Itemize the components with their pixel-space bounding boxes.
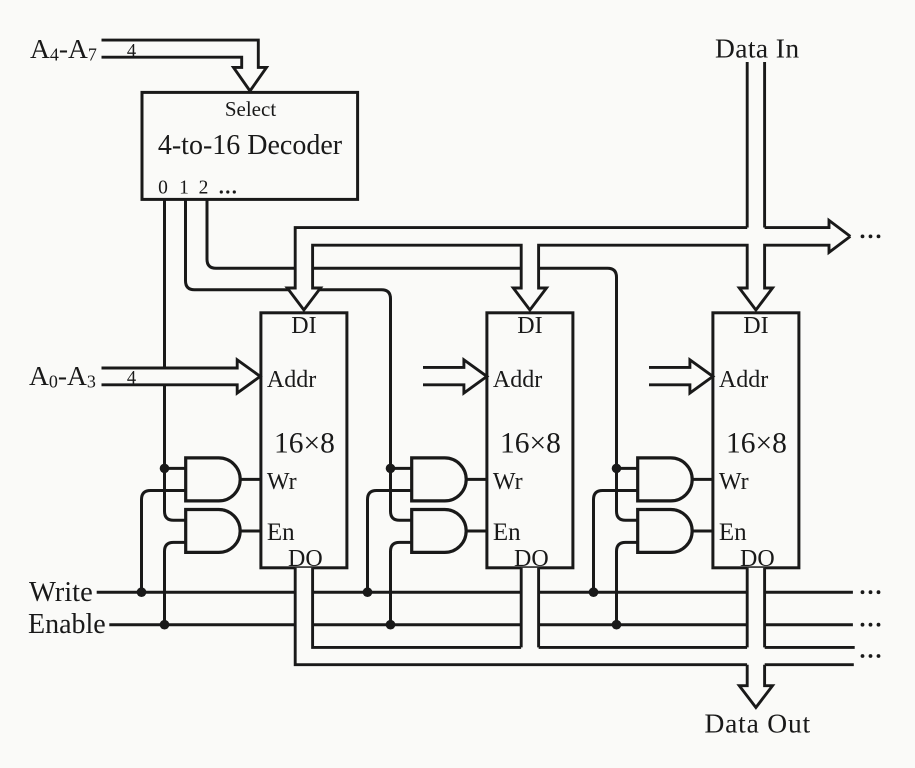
memory chip M2 (16x8 RAM, bank 2) — [713, 313, 799, 568]
junction Write tap bank 0 — [137, 587, 147, 597]
wire select tap to Wr AND gate input (bank 2) — [617, 467, 638, 470]
junction Enable tap bank 0 — [160, 620, 170, 630]
svg-text:1: 1 — [179, 178, 189, 199]
wire decoder output 0 (net Sel0) to bank 0 AND gates — [165, 199, 186, 520]
wire Wr gate output to chip pin Wr (bank 1) — [466, 478, 489, 481]
junction Enable tap bank 2 — [612, 620, 622, 630]
wire decoder output 1 (net Sel1) to bank 1 AND gates — [186, 199, 412, 520]
svg-text:A0-A3: A0-A3 — [29, 360, 96, 392]
label ellipsis Enable line continuation — [861, 623, 881, 627]
svg-text:En: En — [493, 519, 521, 546]
junction select tap bank 2 — [612, 464, 622, 474]
wire Wr gate output to chip pin Wr (bank 2) — [692, 478, 715, 481]
pin label 0 (decoder output 0) — [158, 178, 168, 199]
AND gate U5 (Write enable, bank 2) — [638, 458, 693, 501]
pin label Wr (bank 0) — [267, 469, 297, 495]
label bus width 4 (A0-A3) — [127, 369, 136, 389]
svg-text:0: 0 — [158, 178, 168, 199]
pin label DI (bank 1) — [517, 313, 542, 339]
label Data Out — [705, 708, 811, 739]
bus Data In vertical — [747, 62, 764, 228]
svg-text:DI: DI — [743, 313, 768, 339]
svg-text:DO: DO — [288, 546, 323, 572]
svg-text:4: 4 — [127, 42, 136, 62]
AND gate U2 (chip Enable, bank 0) — [186, 510, 240, 553]
bus Addr stub arrow into chip M1 — [423, 360, 487, 393]
pin label Wr (bank 2) — [719, 469, 749, 495]
wire decoder output 2 (net Sel2) to bank 2 AND gates — [207, 199, 638, 520]
svg-text:4-to-16 Decoder: 4-to-16 Decoder — [158, 130, 343, 161]
pin label DO (bank 0) — [288, 546, 323, 572]
pin label DI (bank 2) — [743, 313, 768, 339]
svg-text:Data In: Data In — [715, 33, 800, 64]
bus A4-A7 into decoder Select input — [102, 40, 267, 91]
label ellipsis decoder outputs — [220, 190, 236, 193]
bus DO output of chip M2 crossing Data Out bus into Data Out arrow — [739, 568, 772, 708]
svg-text:DI: DI — [291, 313, 316, 339]
pin label Wr (bank 1) — [493, 469, 523, 495]
wire Write tap riser to Wr AND gate input (bank 2) — [594, 491, 638, 593]
label A0-A3 — [29, 360, 96, 392]
svg-text:En: En — [267, 519, 295, 546]
bus DO output of chip M0 turning into Data Out bus — [295, 568, 855, 666]
svg-text:A4-A7: A4-A7 — [30, 33, 97, 65]
pin label En (bank 2) — [719, 519, 747, 546]
wire Write line (net Write) — [97, 591, 853, 594]
pin label Addr (bank 0) — [267, 367, 316, 393]
label ellipsis Data Out bus continuation — [861, 654, 881, 658]
wire Enable drop from En AND gate input (bank 2) — [617, 542, 638, 624]
junction Enable tap bank 1 — [386, 620, 396, 630]
label Write — [29, 577, 93, 608]
label bus width 4 (A4-A7) — [127, 42, 136, 62]
wire Enable line (net Enable) — [109, 623, 853, 626]
wire Enable drop from En AND gate input (bank 0) — [165, 542, 186, 624]
svg-text:Write: Write — [29, 577, 93, 608]
junction Write tap bank 1 — [363, 587, 373, 597]
AND gate U3 (Write enable, bank 1) — [412, 458, 467, 501]
pin label En (bank 1) — [493, 519, 521, 546]
svg-text:Enable: Enable — [28, 609, 106, 640]
svg-text:DO: DO — [740, 546, 775, 572]
svg-text:DO: DO — [514, 546, 549, 572]
pin label 2 (decoder output 2) — [199, 178, 209, 199]
AND gate U1 (Write enable, bank 0) — [186, 458, 240, 501]
pin label DO (bank 1) — [514, 546, 549, 572]
svg-text:Addr: Addr — [267, 367, 316, 393]
svg-text:16×8: 16×8 — [500, 427, 561, 459]
value label 16x8 (bank 1) — [500, 427, 561, 459]
bus Addr stub arrow into chip M2 — [649, 360, 713, 393]
svg-text:Wr: Wr — [267, 469, 297, 495]
wire Wr gate output to chip pin Wr (bank 0) — [240, 478, 263, 481]
wire Write tap riser to Wr AND gate input (bank 0) — [142, 491, 186, 593]
label Data In — [715, 33, 800, 64]
svg-text:16×8: 16×8 — [726, 427, 787, 459]
pin label DI (bank 0) — [291, 313, 316, 339]
svg-text:En: En — [719, 519, 747, 546]
label Select (decoder input pin) — [225, 97, 276, 121]
svg-text:Data Out: Data Out — [705, 708, 811, 739]
label 4-to-16 Decoder — [158, 130, 343, 161]
svg-text:DI: DI — [517, 313, 542, 339]
decoder U0 (4-to-16 decoder box) — [142, 92, 358, 199]
label ellipsis Write line continuation — [861, 590, 881, 594]
label ellipsis data-in branch continuation — [861, 235, 881, 239]
svg-text:Select: Select — [225, 97, 276, 121]
wire Write tap riser to Wr AND gate input (bank 1) — [368, 491, 412, 593]
svg-text:Wr: Wr — [719, 469, 749, 495]
svg-text:16×8: 16×8 — [274, 427, 335, 459]
AND gate U4 (chip Enable, bank 1) — [412, 510, 466, 553]
svg-text:2: 2 — [199, 178, 209, 199]
wire select tap to Wr AND gate input (bank 1) — [391, 467, 412, 470]
wire En gate output to chip pin En (bank 2) — [692, 530, 715, 533]
value label 16x8 (bank 2) — [726, 427, 787, 459]
label A4-A7 — [30, 33, 97, 65]
AND gate U6 (chip Enable, bank 2) — [638, 510, 692, 553]
pin label En (bank 0) — [267, 519, 295, 546]
wire select tap to Wr AND gate input (bank 0) — [165, 467, 186, 470]
junction select tap bank 0 — [160, 464, 170, 474]
wire En gate output to chip pin En (bank 1) — [466, 530, 489, 533]
wire Enable drop from En AND gate input (bank 1) — [391, 542, 412, 624]
junction Write tap bank 2 — [589, 587, 599, 597]
junction select tap bank 1 — [386, 464, 396, 474]
bus Data In horizontal branch with DI drops and continuation arrow — [287, 220, 850, 310]
svg-text:Addr: Addr — [719, 367, 768, 393]
bus DO output of chip M1 teeing into Data Out bus — [521, 568, 538, 649]
memory chip M1 (16x8 RAM, bank 1) — [487, 313, 573, 568]
svg-text:4: 4 — [127, 369, 136, 389]
pin label DO (bank 2) — [740, 546, 775, 572]
pin label Addr (bank 2) — [719, 367, 768, 393]
pin label Addr (bank 1) — [493, 367, 542, 393]
wire En gate output to chip pin En (bank 0) — [240, 530, 263, 533]
bus A0-A3 into chip M0 Addr input — [102, 360, 261, 393]
value label 16x8 (bank 0) — [274, 427, 335, 459]
pin label 1 (decoder output 1) — [179, 178, 189, 199]
memory chip M0 (16x8 RAM, bank 0) — [261, 313, 347, 568]
svg-text:Wr: Wr — [493, 469, 523, 495]
svg-text:Addr: Addr — [493, 367, 542, 393]
label Enable — [28, 609, 106, 640]
